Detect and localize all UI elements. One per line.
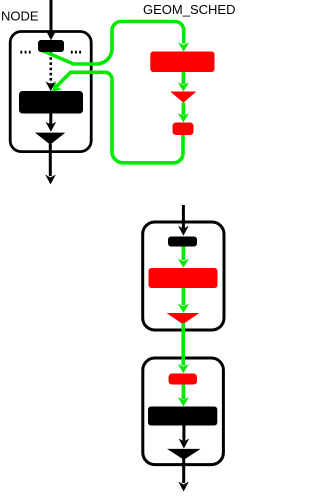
wire: edge black rect to triangle in SCHED4 (182, 426, 185, 442)
node box SCHED3 (lower-left cluster border) (143, 222, 224, 330)
arrowhead entry SCHED3 (178, 226, 189, 236)
big black triangle in NODE (35, 133, 65, 145)
wire: entry edge into SCHED3 (182, 205, 185, 229)
green arrowhead into black rect SCHED4 (178, 397, 189, 406)
red triangle SCHED3 (167, 313, 200, 324)
green arrowhead into red triangle SCHED3 (178, 304, 189, 313)
wire: entry edge into NODE (50, 0, 53, 34)
node box NODE (cluster border) (10, 32, 91, 152)
wire: edge big box to triangle in NODE (49, 114, 52, 126)
node box SCHED4 (lower-right cluster border) (143, 358, 224, 465)
green wire: NODE small box to GEOM red rect (out path) (40, 22, 184, 65)
green arrowhead into GEOM red rect (178, 42, 189, 51)
green wire: red triangle to small red box (182, 103, 186, 115)
green arrowhead into small red box SCHED4 (178, 364, 189, 373)
svg-text:GEOM_SCHED: GEOM_SCHED (143, 2, 235, 17)
arrowhead to triangle SCHED4 (179, 439, 190, 449)
arrowhead to triangle NODE (46, 122, 57, 132)
black rect SCHED4 (148, 407, 217, 426)
big black rect in NODE (19, 91, 83, 114)
green wire: small black box to red rect in SCHED3 (182, 247, 186, 261)
wire: exit edge below NODE (49, 144, 52, 176)
red rect GEOM_SCHED (150, 52, 214, 73)
green arrowhead into red rect SCHED3 (178, 259, 189, 268)
arrowhead dashed edge (46, 81, 57, 91)
green wire: red rect to red triangle SCHED3 (182, 288, 186, 305)
green wire: GEOM red rect to red triangle (182, 72, 186, 84)
arrowhead exit NODE (45, 175, 56, 185)
red rect SCHED3 (149, 268, 218, 288)
wire: dashed edge inside NODE (49, 52, 52, 84)
arrowhead entry NODE (46, 30, 57, 40)
small red box in SCHED4 (169, 374, 198, 385)
green arrowhead into small red box (178, 113, 189, 122)
green wire: small red box to black rect SCHED4 (182, 385, 186, 400)
right ellipsis dots (71, 51, 81, 54)
svg-text:NODE: NODE (1, 8, 39, 23)
small black box in SCHED3 (168, 237, 197, 247)
green arrowhead into NODE big box (52, 82, 63, 93)
green wire: small red box back to NODE big box (return path) (57, 72, 184, 163)
arrowhead exit SCHED4 (178, 482, 189, 492)
left ellipsis dots (20, 51, 31, 54)
green arrowhead into red triangle (178, 82, 189, 91)
small red box GEOM_SCHED (173, 123, 194, 136)
anchor box in NODE (38, 40, 64, 52)
green wire: SCHED3 to SCHED4 (181, 323, 185, 366)
big black triangle in SCHED4 (167, 449, 201, 460)
red triangle GEOM_SCHED (170, 92, 196, 103)
wire: exit edge below SCHED4 (182, 459, 185, 483)
